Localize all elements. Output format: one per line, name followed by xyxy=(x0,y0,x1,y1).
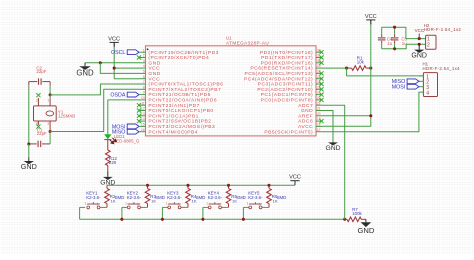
svg-text:GND: GND xyxy=(148,60,160,66)
svg-text:5: 5 xyxy=(143,70,145,74)
svg-text:29: 29 xyxy=(317,64,321,68)
svg-text:HDR-F-2.54_1x4: HDR-F-2.54_1x4 xyxy=(423,66,461,71)
svg-text:1: 1 xyxy=(247,201,249,205)
svg-text:30: 30 xyxy=(317,59,321,63)
svg-text:32: 32 xyxy=(317,48,321,52)
svg-text:AVCC: AVCC xyxy=(298,124,313,130)
svg-text:4: 4 xyxy=(143,64,145,68)
svg-text:K2-3.6-: K2-3.6- xyxy=(127,195,142,200)
svg-text:PC0(ADC0/PCINT8): PC0(ADC0/PCINT8) xyxy=(261,98,314,104)
svg-text:15: 15 xyxy=(141,123,145,127)
svg-text:10k: 10k xyxy=(357,60,365,65)
svg-text:PC2(ADC2/PCINT10): PC2(ADC2/PCINT10) xyxy=(257,87,313,93)
svg-text:14: 14 xyxy=(141,117,145,121)
svg-text:GND: GND xyxy=(411,53,427,60)
svg-text:GND: GND xyxy=(301,108,313,114)
svg-text:PD1(TXD/PCINT17): PD1(TXD/PCINT17) xyxy=(261,55,313,61)
svg-text:HDR-F-2.54_1x2: HDR-F-2.54_1x2 xyxy=(424,27,462,32)
svg-text:4: 4 xyxy=(36,122,38,126)
svg-text:PCINT21/OC0B/T1)PD5: PCINT21/OC0B/T1)PD5 xyxy=(148,92,211,98)
svg-text:2: 2 xyxy=(143,54,145,58)
svg-text:2: 2 xyxy=(97,202,99,206)
svg-text:27: 27 xyxy=(317,75,321,79)
svg-text:3: 3 xyxy=(48,122,50,126)
svg-text:1: 1 xyxy=(206,201,208,205)
svg-text:17: 17 xyxy=(317,128,321,132)
svg-text:6: 6 xyxy=(143,75,145,79)
svg-text:8: 8 xyxy=(143,85,145,89)
svg-text:7: 7 xyxy=(143,80,145,84)
svg-text:SMD: SMD xyxy=(277,195,287,200)
svg-text:AREF: AREF xyxy=(298,113,313,119)
svg-text:25: 25 xyxy=(317,85,321,89)
svg-text:PC1(ADC1/PCINT9): PC1(ADC1/PCINT9) xyxy=(261,92,314,98)
svg-text:1K: 1K xyxy=(232,198,237,203)
svg-text:PC5(ADC5/SCL/PCINT13): PC5(ADC5/SCL/PCINT13) xyxy=(245,71,314,77)
svg-text:(PCINT6/XTAL1/TOSC1)PB6: (PCINT6/XTAL1/TOSC1)PB6 xyxy=(148,82,223,88)
svg-text:1: 1 xyxy=(85,201,87,205)
svg-text:PC3(ADC3/PCINT11): PC3(ADC3/PCINT11) xyxy=(258,82,313,88)
svg-text:21: 21 xyxy=(317,107,321,111)
svg-text:24: 24 xyxy=(317,91,321,95)
svg-text:SMD: SMD xyxy=(196,195,206,200)
svg-text:SMD: SMD xyxy=(155,195,165,200)
svg-text:LED-0805_G: LED-0805_G xyxy=(114,139,140,144)
svg-text:ATMEGA328P-AU: ATMEGA328P-AU xyxy=(226,40,269,45)
svg-text:2: 2 xyxy=(427,42,430,48)
svg-text:10: 10 xyxy=(141,96,145,100)
svg-text:16: 16 xyxy=(141,128,145,132)
svg-text:K2-3.6-: K2-3.6- xyxy=(86,195,101,200)
svg-text:3: 3 xyxy=(143,59,145,63)
svg-text:22pF: 22pF xyxy=(36,69,46,74)
svg-text:PCINT4/MISO)PB4: PCINT4/MISO)PB4 xyxy=(148,129,198,135)
svg-text:GND: GND xyxy=(148,71,160,77)
svg-text:OSDA: OSDA xyxy=(110,93,125,99)
svg-text:VCC: VCC xyxy=(365,14,377,20)
svg-text:1K: 1K xyxy=(151,198,156,203)
svg-text:PB5(SCK/PCINT5): PB5(SCK/PCINT5) xyxy=(264,129,313,135)
svg-text:22: 22 xyxy=(317,101,321,105)
svg-text:2: 2 xyxy=(178,202,180,206)
svg-text:ADC6: ADC6 xyxy=(298,119,313,125)
svg-text:12SMXB: 12SMXB xyxy=(58,114,75,119)
svg-text:OSCL: OSCL xyxy=(111,50,125,56)
svg-text:PD0(RXD/PCINT16): PD0(RXD/PCINT16) xyxy=(261,60,314,66)
svg-text:1u: 1u xyxy=(387,41,392,46)
svg-text:GND: GND xyxy=(357,226,374,235)
svg-text:1: 1 xyxy=(48,99,50,103)
svg-text:VCC: VCC xyxy=(108,36,120,42)
svg-text:MOSI: MOSI xyxy=(392,85,406,91)
svg-text:GND: GND xyxy=(21,162,37,171)
svg-text:(PCINT20/XCK/T0)PD4: (PCINT20/XCK/T0)PD4 xyxy=(148,55,209,61)
svg-text:PC6(RESET#/PCINT14): PC6(RESET#/PCINT14) xyxy=(250,66,313,72)
svg-text:GND: GND xyxy=(76,68,94,77)
svg-text:11: 11 xyxy=(141,101,145,105)
svg-text:PCINT22/OC0A/AIN0)PD6: PCINT22/OC0A/AIN0)PD6 xyxy=(148,98,217,104)
svg-text:K2-3.6-: K2-3.6- xyxy=(248,195,263,200)
svg-text:PCINT3/OC2A/MOSI)PB3: PCINT3/OC2A/MOSI)PB3 xyxy=(148,124,215,130)
svg-text:PD2(INT0/PCINT18): PD2(INT0/PCINT18) xyxy=(260,50,313,56)
svg-text:13: 13 xyxy=(141,112,145,116)
svg-text:12: 12 xyxy=(141,107,145,111)
svg-text:1K: 1K xyxy=(192,198,197,203)
svg-text:28: 28 xyxy=(317,70,321,74)
svg-text:23: 23 xyxy=(317,96,321,100)
svg-text:18: 18 xyxy=(317,123,321,127)
svg-text:K2-3.6-: K2-3.6- xyxy=(208,195,223,200)
svg-text:100k: 100k xyxy=(352,211,362,216)
svg-text:VCC: VCC xyxy=(148,76,160,82)
svg-text:1K: 1K xyxy=(111,198,116,203)
svg-text:22pF: 22pF xyxy=(37,131,47,136)
svg-text:1: 1 xyxy=(166,201,168,205)
svg-text:GND: GND xyxy=(325,145,340,152)
svg-text:ADC7: ADC7 xyxy=(298,103,313,109)
svg-text:VCC: VCC xyxy=(148,66,160,72)
svg-text:SMD: SMD xyxy=(236,195,246,200)
svg-text:PCINT1/OC1A)PB1: PCINT1/OC1A)PB1 xyxy=(148,113,198,119)
svg-text:2: 2 xyxy=(36,99,38,103)
svg-text:19: 19 xyxy=(317,117,321,121)
svg-text:2: 2 xyxy=(218,202,220,206)
svg-text:VCC: VCC xyxy=(289,175,301,181)
svg-text:20: 20 xyxy=(317,112,321,116)
svg-text:PCINT2/SS#/OC1B)PB2: PCINT2/SS#/OC1B)PB2 xyxy=(148,119,211,125)
svg-text:26: 26 xyxy=(317,80,321,84)
svg-text:9: 9 xyxy=(143,91,145,95)
svg-text:1: 1 xyxy=(143,48,145,52)
svg-text:2: 2 xyxy=(137,202,139,206)
svg-text:PCINT7/XTAL2/TOSC2)PB7: PCINT7/XTAL2/TOSC2)PB7 xyxy=(148,87,221,93)
svg-text:PCINT0/CLKO/ICP1)PB0: PCINT0/CLKO/ICP1)PB0 xyxy=(148,108,213,114)
svg-text:220: 220 xyxy=(109,160,117,165)
svg-text:31: 31 xyxy=(317,54,321,58)
svg-text:2: 2 xyxy=(259,202,261,206)
svg-text:K2-3.6-: K2-3.6- xyxy=(167,195,182,200)
svg-text:4: 4 xyxy=(426,91,429,97)
svg-text:PCINT23/AIN1)PD7: PCINT23/AIN1)PD7 xyxy=(148,103,200,109)
svg-text:(PCINT19/OC2B/INT1)PD3: (PCINT19/OC2B/INT1)PD3 xyxy=(148,50,219,56)
svg-text:1K: 1K xyxy=(273,198,278,203)
svg-text:SMD: SMD xyxy=(115,195,125,200)
svg-text:1: 1 xyxy=(125,201,127,205)
svg-text:PC4(ADC4/SDA/PCINT12): PC4(ADC4/SDA/PCINT12) xyxy=(244,76,313,82)
